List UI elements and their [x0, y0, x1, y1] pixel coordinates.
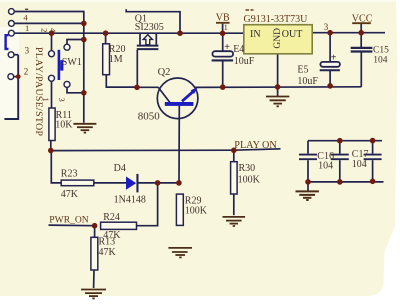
svg-text:4: 4: [23, 12, 28, 22]
svg-text:10uF: 10uF: [297, 76, 318, 87]
svg-text:104: 104: [373, 55, 388, 65]
svg-text:104: 104: [318, 160, 333, 171]
svg-text:R30: R30: [239, 163, 256, 174]
svg-text:1N4148: 1N4148: [114, 194, 146, 205]
svg-text:C15: C15: [373, 46, 389, 56]
svg-text:47K: 47K: [99, 247, 117, 258]
svg-text:104: 104: [352, 159, 367, 170]
svg-text:3: 3: [57, 98, 67, 102]
svg-text:1: 1: [25, 23, 29, 33]
svg-text:10uF: 10uF: [234, 56, 255, 67]
svg-text:G9131-33T73U: G9131-33T73U: [244, 14, 309, 25]
svg-text:1: 1: [224, 22, 228, 32]
svg-text:SW1: SW1: [62, 57, 82, 68]
svg-text:8050: 8050: [138, 111, 161, 123]
svg-text:2: 2: [24, 67, 29, 77]
svg-text:E4: E4: [233, 44, 244, 55]
svg-text:R23: R23: [61, 168, 78, 179]
svg-text:4: 4: [48, 28, 58, 33]
svg-text:Q2: Q2: [158, 67, 171, 78]
svg-text:PLAY/PAUSE/STOP: PLAY/PAUSE/STOP: [33, 47, 44, 136]
svg-text:100K: 100K: [185, 205, 208, 216]
svg-text:SI2305: SI2305: [135, 22, 164, 33]
svg-text:3: 3: [25, 45, 30, 55]
svg-text:PWR_ON: PWR_ON: [49, 215, 89, 226]
svg-text:47K: 47K: [61, 189, 79, 200]
svg-text:2: 2: [40, 28, 50, 32]
svg-text:1M: 1M: [109, 54, 123, 65]
svg-text:100K: 100K: [238, 174, 261, 185]
svg-text:IN: IN: [250, 29, 261, 40]
svg-text:E5: E5: [297, 64, 308, 75]
svg-text:+: +: [331, 52, 337, 63]
svg-text:GND: GND: [273, 28, 283, 49]
svg-text:10K: 10K: [55, 120, 73, 131]
svg-text:+: +: [224, 42, 230, 53]
svg-text:VCC: VCC: [352, 14, 373, 25]
svg-text:R24: R24: [103, 212, 120, 223]
svg-text:3: 3: [324, 22, 329, 32]
svg-text:D4: D4: [114, 163, 126, 174]
svg-text:PLAY ON: PLAY ON: [234, 140, 277, 151]
svg-text:OUT: OUT: [282, 29, 303, 40]
